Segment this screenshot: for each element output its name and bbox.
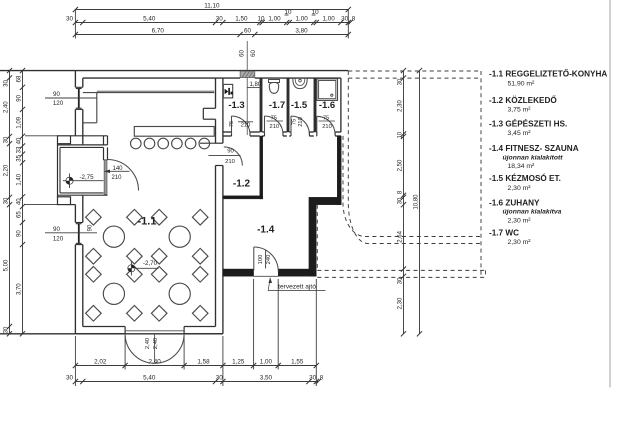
svg-text:75: 75 xyxy=(229,121,235,127)
svg-text:6,70: 6,70 xyxy=(152,28,165,35)
svg-text:1,25: 1,25 xyxy=(232,358,245,365)
svg-text:60: 60 xyxy=(250,49,257,57)
svg-text:1,00: 1,00 xyxy=(268,16,281,23)
svg-text:40: 40 xyxy=(17,137,23,144)
svg-text:1,00: 1,00 xyxy=(260,358,273,365)
svg-text:11,10: 11,10 xyxy=(204,2,220,9)
svg-text:-1.5 KÉZMOSÓ ET.: -1.5 KÉZMOSÓ ET. xyxy=(489,172,561,183)
svg-text:1,40: 1,40 xyxy=(17,173,23,185)
svg-text:-1.7: -1.7 xyxy=(269,100,285,111)
svg-text:210: 210 xyxy=(298,117,304,127)
svg-text:3,70: 3,70 xyxy=(17,283,23,295)
svg-text:8: 8 xyxy=(320,374,324,381)
svg-text:-1.1 REGGELIZTETŐ-KONYHA: -1.1 REGGELIZTETŐ-KONYHA xyxy=(489,68,607,79)
svg-text:33: 33 xyxy=(17,146,23,153)
svg-text:210: 210 xyxy=(111,175,122,181)
svg-text:-1.2 KÖZLEKEDŐ: -1.2 KÖZLEKEDŐ xyxy=(489,94,557,105)
svg-text:5,40: 5,40 xyxy=(143,16,156,23)
svg-text:3,50: 3,50 xyxy=(260,374,273,381)
svg-text:60: 60 xyxy=(244,28,252,35)
svg-text:30: 30 xyxy=(4,80,10,87)
svg-text:240: 240 xyxy=(266,255,272,265)
svg-text:5,00: 5,00 xyxy=(4,259,10,271)
svg-text:90: 90 xyxy=(88,224,94,231)
svg-text:-1.5: -1.5 xyxy=(291,100,308,111)
svg-text:30: 30 xyxy=(397,197,403,204)
svg-text:-1.6 ZUHANY: -1.6 ZUHANY xyxy=(489,198,540,207)
svg-text:-1.4 FITNESZ- SZAUNA: -1.4 FITNESZ- SZAUNA xyxy=(489,144,579,153)
svg-text:30: 30 xyxy=(4,197,10,204)
svg-text:30: 30 xyxy=(341,16,349,23)
svg-text:30: 30 xyxy=(309,374,317,381)
svg-text:2,40: 2,40 xyxy=(4,101,10,113)
svg-text:10: 10 xyxy=(257,16,265,23)
svg-text:210: 210 xyxy=(225,159,236,165)
svg-text:40: 40 xyxy=(17,198,23,205)
svg-text:-1.6: -1.6 xyxy=(319,100,335,111)
svg-text:3,80: 3,80 xyxy=(295,28,308,35)
svg-text:1,00: 1,00 xyxy=(295,16,308,23)
svg-text:65: 65 xyxy=(17,211,23,218)
svg-text:35: 35 xyxy=(17,154,23,161)
svg-text:2,40: 2,40 xyxy=(153,338,159,349)
svg-text:-2,75: -2,75 xyxy=(79,174,94,181)
svg-text:90: 90 xyxy=(17,230,23,237)
svg-text:2,30 m²: 2,30 m² xyxy=(508,185,532,192)
svg-text:30: 30 xyxy=(397,78,403,85)
svg-text:75: 75 xyxy=(291,119,297,125)
svg-text:30: 30 xyxy=(66,374,74,381)
svg-text:2,30: 2,30 xyxy=(397,100,403,112)
svg-text:90: 90 xyxy=(227,148,234,154)
svg-text:51,90 m²: 51,90 m² xyxy=(508,80,536,87)
svg-text:1,09: 1,09 xyxy=(17,116,23,128)
svg-text:újonnan kialakított: újonnan kialakított xyxy=(503,154,564,161)
svg-text:90: 90 xyxy=(17,94,23,101)
svg-text:1,58: 1,58 xyxy=(197,358,210,365)
svg-text:10: 10 xyxy=(397,131,403,138)
svg-text:100: 100 xyxy=(258,255,264,265)
svg-text:10,80: 10,80 xyxy=(414,194,420,210)
svg-text:90: 90 xyxy=(53,91,60,98)
svg-text:3,75 m²: 3,75 m² xyxy=(508,107,532,114)
svg-text:30: 30 xyxy=(397,277,403,284)
svg-text:68: 68 xyxy=(17,75,23,82)
svg-text:-1.2: -1.2 xyxy=(233,179,251,190)
svg-text:30: 30 xyxy=(216,16,224,23)
svg-text:-1.4: -1.4 xyxy=(257,225,275,236)
svg-text:-2,70: -2,70 xyxy=(143,260,158,267)
svg-text:3,45 m²: 3,45 m² xyxy=(508,130,532,137)
svg-text:30: 30 xyxy=(66,16,74,23)
svg-text:2,50: 2,50 xyxy=(397,159,403,171)
svg-text:120: 120 xyxy=(53,235,64,242)
svg-text:tervezett ajtó: tervezett ajtó xyxy=(278,284,316,291)
svg-text:1,55: 1,55 xyxy=(291,358,304,365)
svg-text:2,30 m²: 2,30 m² xyxy=(508,218,532,225)
svg-text:120: 120 xyxy=(53,100,64,107)
svg-text:5,40: 5,40 xyxy=(143,374,156,381)
svg-text:2,02: 2,02 xyxy=(94,358,107,365)
svg-text:2,30: 2,30 xyxy=(397,297,403,309)
svg-text:-1.3: -1.3 xyxy=(228,100,244,111)
svg-text:2,30 m²: 2,30 m² xyxy=(508,239,532,246)
svg-text:18,34 m²: 18,34 m² xyxy=(508,163,536,170)
svg-text:30: 30 xyxy=(4,136,10,143)
svg-text:30: 30 xyxy=(216,374,224,381)
svg-text:2,40: 2,40 xyxy=(145,338,151,349)
svg-text:2,20: 2,20 xyxy=(4,164,10,176)
svg-text:8: 8 xyxy=(352,16,356,23)
svg-text:210: 210 xyxy=(322,124,332,130)
svg-text:90: 90 xyxy=(53,226,60,233)
svg-text:60: 60 xyxy=(239,49,246,57)
svg-text:1,50: 1,50 xyxy=(235,16,248,23)
svg-text:30: 30 xyxy=(4,326,10,333)
svg-text:1,00: 1,00 xyxy=(322,16,335,23)
svg-text:210: 210 xyxy=(270,124,280,130)
svg-text:-1.1: -1.1 xyxy=(138,216,157,228)
svg-text:-1.3 GÉPÉSZETI HS.: -1.3 GÉPÉSZETI HS. xyxy=(489,118,567,128)
svg-text:210: 210 xyxy=(241,123,251,129)
svg-text:-1.7 WC: -1.7 WC xyxy=(489,228,519,237)
svg-text:újonnan kialakítva: újonnan kialakítva xyxy=(503,209,562,216)
